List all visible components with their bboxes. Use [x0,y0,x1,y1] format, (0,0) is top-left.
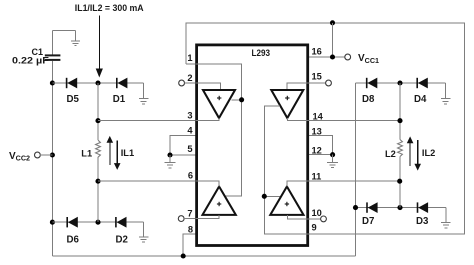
wire pin4 [170,136,196,155]
wire L2 string vertical [399,83,401,140]
wire annotation arrow [98,16,100,70]
svg-text:D8: D8 [362,94,375,105]
svg-text:D5: D5 [67,94,80,105]
svg-text:9: 9 [312,223,317,233]
current arrow IL1 down [116,140,118,163]
wire pin1 enable EN1 [186,63,196,65]
svg-text:D2: D2 [116,235,128,246]
wire VCC1 top rail [186,23,465,234]
svg-text:4: 4 [187,126,193,136]
driver buffer A3 (pins 15-14) [271,90,303,118]
wire D7 D3 row [356,207,446,209]
svg-text:1: 1 [187,53,192,63]
node VCC2 tap [50,152,55,157]
wire buffer2 input stub [287,83,309,90]
svg-text:7: 7 [187,209,192,219]
label buffer4 plus [285,202,289,206]
node VCC1 top junction [330,20,335,25]
wire pin15 [309,82,326,84]
wire buffer4 input stub [287,215,309,219]
node pin12 pin13 junction [330,152,335,157]
ground D1 [139,83,149,104]
wire pin6 [98,180,196,182]
terminal pin7 [178,216,184,222]
wire D8 D7 left vertical VCC2 [355,83,357,256]
wire pin13 [309,135,333,154]
svg-text:0.22 µF: 0.22 µF [12,56,49,66]
svg-text:8: 8 [188,225,193,235]
svg-text:D4: D4 [414,94,427,105]
current arrow IL2 down [417,140,419,164]
wire pin5 [170,154,196,156]
node L1 bottom row [95,220,100,225]
node pin11 tap [397,179,402,184]
diode D1 [116,78,118,88]
wire buffer1 output [196,118,220,121]
node pin6 tap [95,179,100,184]
svg-text:11: 11 [312,172,322,182]
svg-text:D1: D1 [113,94,126,105]
wire pin3 [98,120,196,122]
terminal VCC2 [35,152,41,158]
node L2 bottom [397,205,402,210]
svg-text:VCC1: VCC1 [358,53,379,65]
diode D2 [115,217,117,227]
node D5 row left [50,80,55,85]
svg-text:14: 14 [313,112,324,122]
terminal VCC1 [345,54,351,60]
ground C1 [71,30,80,45]
label buffer2 plus [285,96,289,100]
svg-text:16: 16 [312,47,322,57]
svg-text:10: 10 [312,208,322,218]
svg-text:L2: L2 [385,149,396,159]
terminal pin10 [321,216,327,222]
svg-text:IL1: IL1 [121,148,134,158]
node D7 row left [353,205,358,210]
svg-text:L293: L293 [252,48,271,59]
node L2 top [397,80,402,85]
wire buffer2 output [287,118,309,121]
current arrow IL2 up [409,143,411,167]
diode D6 [66,217,68,227]
inductor L1 [96,140,101,157]
diode D4 [416,78,418,88]
terminal pin15 [326,80,332,86]
svg-text:D7: D7 [362,216,374,227]
node pin8 bottom junction [181,253,186,258]
terminal pin2 [179,80,185,86]
svg-text:12: 12 [312,146,322,156]
node pin14 tap [397,118,402,123]
svg-text:IL1/IL2 = 300 mA: IL1/IL2 = 300 mA [75,2,144,13]
inductor L2 [398,140,403,157]
wire buffer3 input stub [196,215,220,219]
svg-text:D6: D6 [67,235,80,246]
wire buffer3 output [196,181,220,186]
node enable1 junction [239,97,244,102]
svg-text:2: 2 [187,73,192,83]
wire pin2 [184,82,195,84]
wire enable1 stub to buffer1 [231,99,241,101]
wire left VCC2 rail [51,83,53,256]
wire pin8 [183,234,195,256]
wire buffer4 output [287,181,309,186]
svg-text:IL2: IL2 [422,148,435,158]
driver buffer A1 (pins 2-3) [203,90,235,118]
wire D5 D1 row [52,82,143,84]
capacitor C1 [51,30,53,54]
wire pin16 drop from top rail [332,23,334,57]
wire enable2 stub to buffer2 [264,106,309,234]
wire enable1 rail inside chip [196,64,242,196]
wire L1 string vertical [97,83,99,140]
wire D6 D2 row [52,221,143,223]
wire pin14 [309,120,400,122]
svg-text:3: 3 [187,111,192,121]
ground D3 [441,208,451,228]
driver buffer A2 (pins 7-6) [203,187,236,215]
node D6 row left [50,220,55,225]
node enable2 junction [262,194,267,199]
current arrow IL1 up [109,142,111,165]
ground D4 [441,83,451,104]
node pin16 junction [330,54,335,59]
ground pins 4 5 [165,155,176,168]
diode D3 [417,202,419,212]
svg-text:L1: L1 [81,149,92,159]
node pin4 pin5 junction [167,152,172,157]
wire enable2 stub to buffer4 [264,195,280,197]
wire pin16 to VCC1 terminal [309,56,345,58]
svg-text:VCC2: VCC2 [9,151,30,163]
wire buffer1 input stub [196,83,221,90]
diode D7 [366,202,368,212]
driver buffer A4 (pins 10-11) [270,187,303,215]
svg-text:5: 5 [187,144,192,154]
svg-text:D3: D3 [416,216,429,227]
svg-text:15: 15 [312,72,322,82]
wire bottom VCC2 [52,255,355,257]
node L1 top [95,80,100,85]
wire pin10 [309,218,321,220]
wire pin12 [309,154,333,156]
diode D8 [366,78,368,88]
label buffer3 plus [217,202,221,206]
wire pin11 [309,180,400,182]
IC U1 L293 package outline [197,45,308,246]
wire D8 D4 row [356,82,446,84]
ground D2 [139,222,149,242]
wire pin7 [184,218,195,220]
node pin3 tap [95,118,100,123]
svg-text:6: 6 [188,171,193,181]
wire C1 to ground [52,29,75,31]
ground pins 12 13 [327,155,338,168]
label buffer1 plus [217,96,221,100]
svg-text:13: 13 [312,127,322,137]
diode D5 [66,78,68,88]
